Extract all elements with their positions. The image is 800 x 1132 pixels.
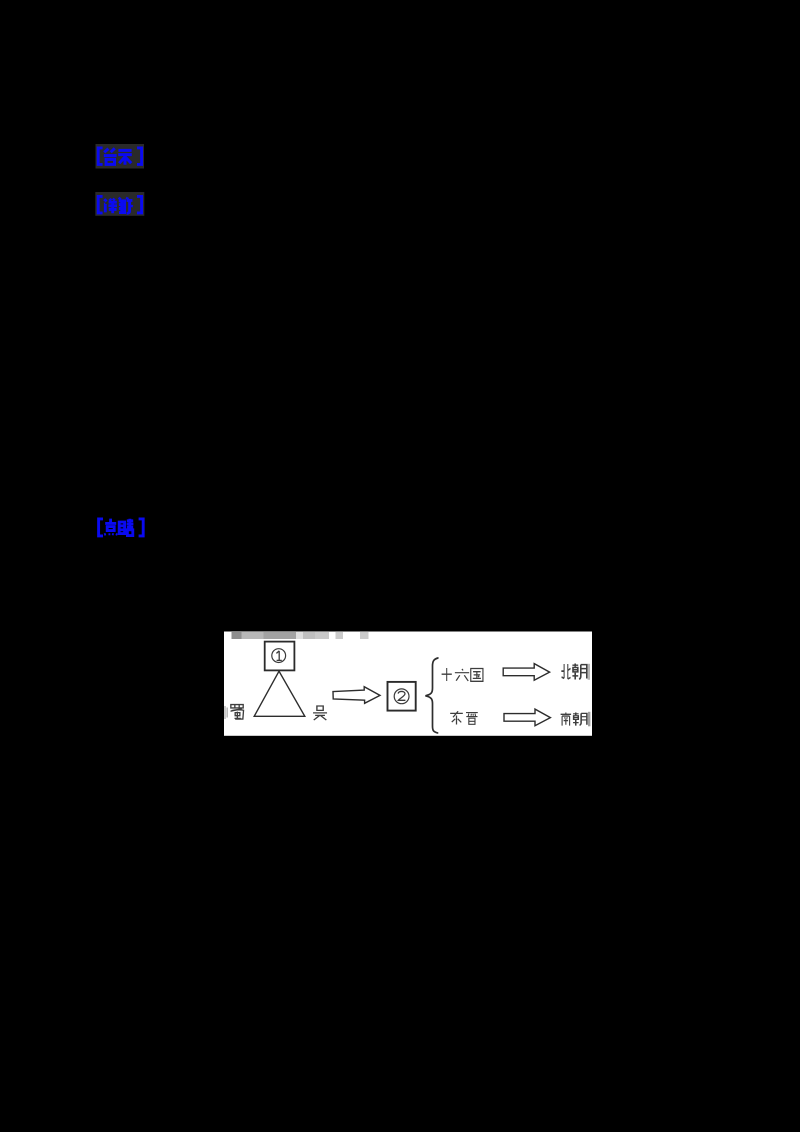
clipped glyph fragment at right panel edge (top line) [588,664,590,680]
block arrow 1 (slightly tapered, between triangle and box 2) [333,687,380,704]
label 朝 (top) [572,664,586,680]
label 北 [561,664,570,679]
highlight box behind answer label 2 [95,192,144,216]
blue label 【点睛】 [99,519,144,536]
curly brace [425,658,438,733]
blue label 【详解】 [98,196,141,213]
diagram panel (white) [224,632,592,736]
triangle [254,671,305,716]
label 南 [561,712,572,725]
label 六 [455,669,469,681]
smudged grey text row at top of panel [232,632,369,639]
block arrow 2 (top, before 北朝) [503,664,549,681]
highlight box behind answer label 1 [96,144,145,169]
label 东 [450,711,463,724]
label 晋 [466,713,478,725]
clipped glyph fragment at right panel edge (bottom line) [588,712,590,727]
block arrow 3 (bottom, before 南朝) [504,709,550,726]
circled digit 1 inside box 1 [272,649,286,663]
label 十 [442,668,452,681]
clipped glyph fragment at left panel edge [225,706,227,719]
label 吴 (right of triangle) [313,706,327,720]
circled digit 2 inside box 2 [394,689,409,704]
label 国 [471,669,483,682]
box 1 (square with circled 1) [265,642,295,671]
label 蜀 (left of triangle) [231,705,244,720]
label 朝 (bottom) [573,712,587,725]
blue label 【答案】 [98,148,141,165]
box 2 (square with circled 2) [388,682,416,711]
